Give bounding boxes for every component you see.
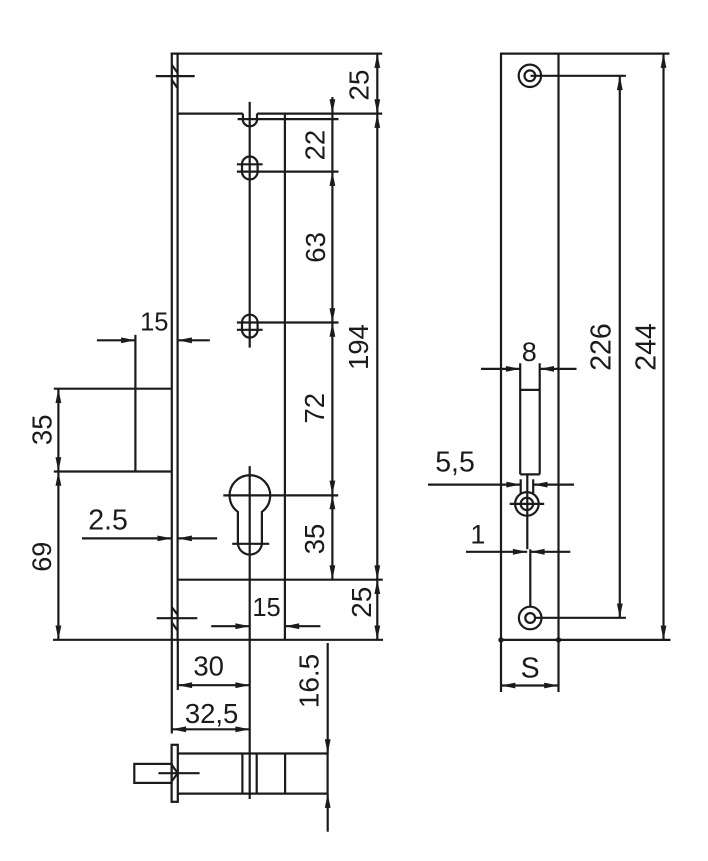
svg-text:194: 194 <box>343 324 374 370</box>
dim 15 top left arrow <box>97 339 135 341</box>
profile case top <box>178 752 328 754</box>
dim col 25-194-25 : 25 top <box>376 54 378 114</box>
svg-text:15: 15 <box>140 309 168 337</box>
dim 1 right arrow <box>530 551 570 553</box>
profile latch bevel lower <box>172 773 178 781</box>
plate right edge <box>557 53 559 640</box>
dim 5,5 right arrow <box>533 484 574 486</box>
dim S line <box>501 684 559 686</box>
hole2 upper tick <box>237 163 263 165</box>
svg-text:25: 25 <box>343 70 374 101</box>
mid hole vertical centerline <box>526 474 528 549</box>
hole1 lower arc <box>243 119 257 126</box>
hole3 upper tick / 63-72 extension <box>237 321 339 323</box>
hole2 lower tick / 22-63 extension <box>237 171 339 173</box>
top hole extension line <box>531 75 626 77</box>
profile case right edge <box>327 754 329 794</box>
dim 72 line <box>331 323 333 495</box>
top screw hole inner <box>525 70 536 81</box>
left box bottom line <box>54 470 172 472</box>
bottom edge long line <box>53 639 383 641</box>
profile latch bevel upper <box>172 765 178 773</box>
dim 1 left arrow <box>466 551 527 553</box>
right extension vertical <box>284 114 286 640</box>
cylinder center tick / 72-35 extension <box>223 494 338 496</box>
svg-text:22: 22 <box>299 130 330 161</box>
dim 226 line <box>619 76 621 618</box>
hole1 step right <box>256 114 258 120</box>
194 bottom line <box>178 579 383 581</box>
svg-text:35: 35 <box>299 524 330 555</box>
dim 15 bottom right arrow <box>285 625 321 627</box>
offset centerline lower <box>529 549 531 607</box>
plate bottom edge <box>501 639 671 641</box>
profile case bottom <box>178 792 328 794</box>
svg-text:69: 69 <box>27 542 57 572</box>
hole2 slot outline <box>242 157 258 180</box>
latch slot bottom <box>520 473 540 475</box>
plate left edge extension below <box>500 640 502 692</box>
hole3 slot outline <box>242 315 258 338</box>
dim 2.5 left arrow <box>82 537 172 539</box>
svg-text:244: 244 <box>631 323 663 371</box>
bottom screw hole inner <box>525 613 535 623</box>
faceplate right edge <box>177 53 179 640</box>
dim 32,5 line <box>172 728 250 730</box>
bottom hole extension line <box>534 617 626 619</box>
dim 22 top arrow <box>331 97 333 114</box>
svg-text:226: 226 <box>586 323 618 371</box>
dim 15 bottom left arrow <box>211 625 250 627</box>
cylinder small circle tick <box>232 543 269 545</box>
svg-text:30: 30 <box>193 650 224 681</box>
plate top edge <box>501 52 670 54</box>
break mark top <box>156 65 195 88</box>
dim 22 bottom arrow / 63 top arrow <box>331 172 333 189</box>
faceplate top edge <box>171 52 383 54</box>
faceplate right edge extension below <box>177 640 179 690</box>
profile latch rect <box>134 764 171 783</box>
left box vertical <box>134 335 136 472</box>
bottom screw hole outer <box>519 607 542 630</box>
svg-text:15: 15 <box>252 594 280 622</box>
dim 244 line <box>662 54 664 640</box>
svg-text:8: 8 <box>522 337 537 367</box>
mid screw hole outer <box>515 492 539 516</box>
plate corner dot right <box>556 637 561 642</box>
plate left edge <box>500 53 502 640</box>
dim 15 top right arrow <box>178 339 210 341</box>
svg-text:2.5: 2.5 <box>88 505 128 537</box>
hole1 row line right part <box>257 112 382 114</box>
dim 16.5 lower arrow <box>327 794 329 832</box>
dia 5,5 left tick <box>520 479 522 493</box>
svg-text:32,5: 32,5 <box>185 698 239 729</box>
centerline vertical lower segment <box>249 466 251 799</box>
dim 25 bottom line <box>376 580 378 640</box>
dim 63 line <box>331 189 333 323</box>
latch slot right edge <box>539 363 541 474</box>
svg-text:S: S <box>521 653 540 685</box>
centerline vertical upper segment <box>249 102 251 348</box>
svg-text:25: 25 <box>346 587 377 618</box>
faceplate left edge extension below <box>171 640 173 734</box>
hole1 step left <box>242 114 244 120</box>
profile inner vertical 1 <box>241 754 243 794</box>
hole1 center tick / 22 upper extension <box>238 118 339 120</box>
plate corner dot left <box>498 637 503 642</box>
svg-text:72: 72 <box>299 393 330 424</box>
dim 35 left line <box>57 389 59 472</box>
profile inner vertical 2 <box>256 754 258 794</box>
dim 2.5 right arrow <box>178 537 218 539</box>
mid screw hole inner <box>521 498 533 510</box>
faceplate left edge <box>171 53 173 640</box>
dim 16.5 upper arrow <box>327 643 329 754</box>
dim 30 line <box>178 684 250 686</box>
dim 35 right line <box>331 495 333 580</box>
svg-text:1: 1 <box>470 520 485 550</box>
euro cylinder profile outline <box>230 475 271 554</box>
dim 69 line <box>57 472 59 640</box>
svg-text:35: 35 <box>27 415 58 446</box>
break mark bottom <box>157 607 198 630</box>
latch slot left edge <box>519 363 521 474</box>
dim 8 right arrow <box>540 368 577 370</box>
hole3 lower tick <box>237 329 263 331</box>
profile inner vertical 3 <box>284 754 286 794</box>
top screw hole outer <box>519 65 541 87</box>
left box top line <box>54 388 172 390</box>
latch slot crossbar <box>520 389 540 391</box>
dim 8 left arrow <box>481 368 520 370</box>
dim 194 line <box>376 114 378 580</box>
mid hole horizontal tick <box>510 503 545 505</box>
dim col 22-63-72-35 through line <box>331 114 333 172</box>
dim 5,5 left arrow <box>428 484 521 486</box>
svg-text:16.5: 16.5 <box>294 654 325 709</box>
hole1 row line left part <box>178 112 243 114</box>
profile latch centerline <box>158 772 199 774</box>
svg-text:63: 63 <box>300 232 331 263</box>
plate right edge extension below <box>557 640 559 692</box>
profile faceplate rect <box>172 745 178 802</box>
svg-text:5,5: 5,5 <box>435 447 475 479</box>
dia 5,5 right tick <box>532 479 534 493</box>
